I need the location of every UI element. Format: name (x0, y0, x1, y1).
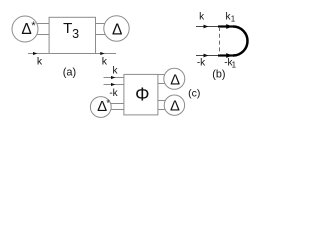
circle D* bottom left (90, 97, 111, 118)
wire: top line k thin (196, 26, 220, 28)
arrow on -k line (111, 83, 115, 86)
svg-text:*: * (106, 98, 110, 108)
dashed interaction line (219, 27, 221, 55)
wire: double line box to bottom-right circle, lower (157, 109, 167, 111)
box T3 (49, 17, 95, 53)
circle D right (104, 16, 129, 41)
label k1 (226, 11, 236, 23)
svg-text:Δ: Δ (112, 21, 122, 38)
svg-text:Δ: Δ (21, 21, 31, 38)
wire: double line left circle to T3 box, upper (30, 23, 49, 25)
label T3 (63, 20, 79, 41)
svg-text:-k: -k (197, 58, 206, 69)
svg-text:T: T (63, 20, 72, 37)
wire: bottom line -k1 thick (218, 54, 234, 56)
label Delta* (21, 20, 36, 38)
svg-text:1: 1 (232, 61, 237, 70)
wire: nucleon line k right (93, 53, 116, 55)
wire: double line T3 box to right circle, lower (95, 34, 110, 36)
thick semicircle loop (233, 27, 248, 56)
circle D top right (164, 68, 185, 89)
wire: double line D* circle to box, lower (108, 109, 124, 111)
circle D* left (12, 16, 38, 42)
wire: k line into Phi box (104, 77, 125, 79)
wire: double line T3 box to right circle, upper (95, 23, 110, 25)
wire: nucleon line k left (28, 53, 52, 55)
svg-text:Δ: Δ (170, 98, 180, 114)
svg-text:*: * (31, 20, 36, 32)
arrow on k line (111, 76, 115, 79)
wire: double line left circle to T3 box, lower (30, 34, 49, 36)
svg-text:3: 3 (72, 27, 79, 41)
arrow thick bottom (226, 53, 232, 58)
arrow on left k line (33, 52, 37, 55)
wire: double line box to top-right circle, lower (157, 83, 167, 85)
circle D bottom right (164, 95, 184, 115)
label -k1 (224, 57, 236, 69)
wire: double line D* circle to box, upper (108, 103, 124, 105)
wire: top line k1 thick (218, 25, 234, 27)
arrow thin top (204, 25, 209, 29)
svg-text:k: k (37, 56, 43, 68)
svg-text:(c): (c) (188, 88, 200, 100)
arrow on right k line (100, 52, 104, 55)
wire: -k line into Phi box (104, 84, 125, 86)
svg-text:Φ: Φ (135, 85, 149, 105)
svg-text:k: k (102, 56, 108, 68)
svg-text:1: 1 (231, 15, 236, 24)
svg-text:(a): (a) (63, 66, 76, 78)
svg-text:(b): (b) (212, 68, 225, 80)
svg-text:-k: -k (109, 88, 118, 99)
svg-text:Δ: Δ (170, 72, 180, 88)
box Phi (124, 74, 158, 115)
arrow thick top (226, 24, 232, 29)
wire: double line box to bottom-right circle, upper (157, 100, 167, 102)
label Delta* (97, 98, 110, 115)
wire: double line box to top-right circle, upper (157, 74, 167, 76)
arrow thin bottom (204, 54, 209, 58)
wire: bottom line -k thin (196, 55, 220, 57)
